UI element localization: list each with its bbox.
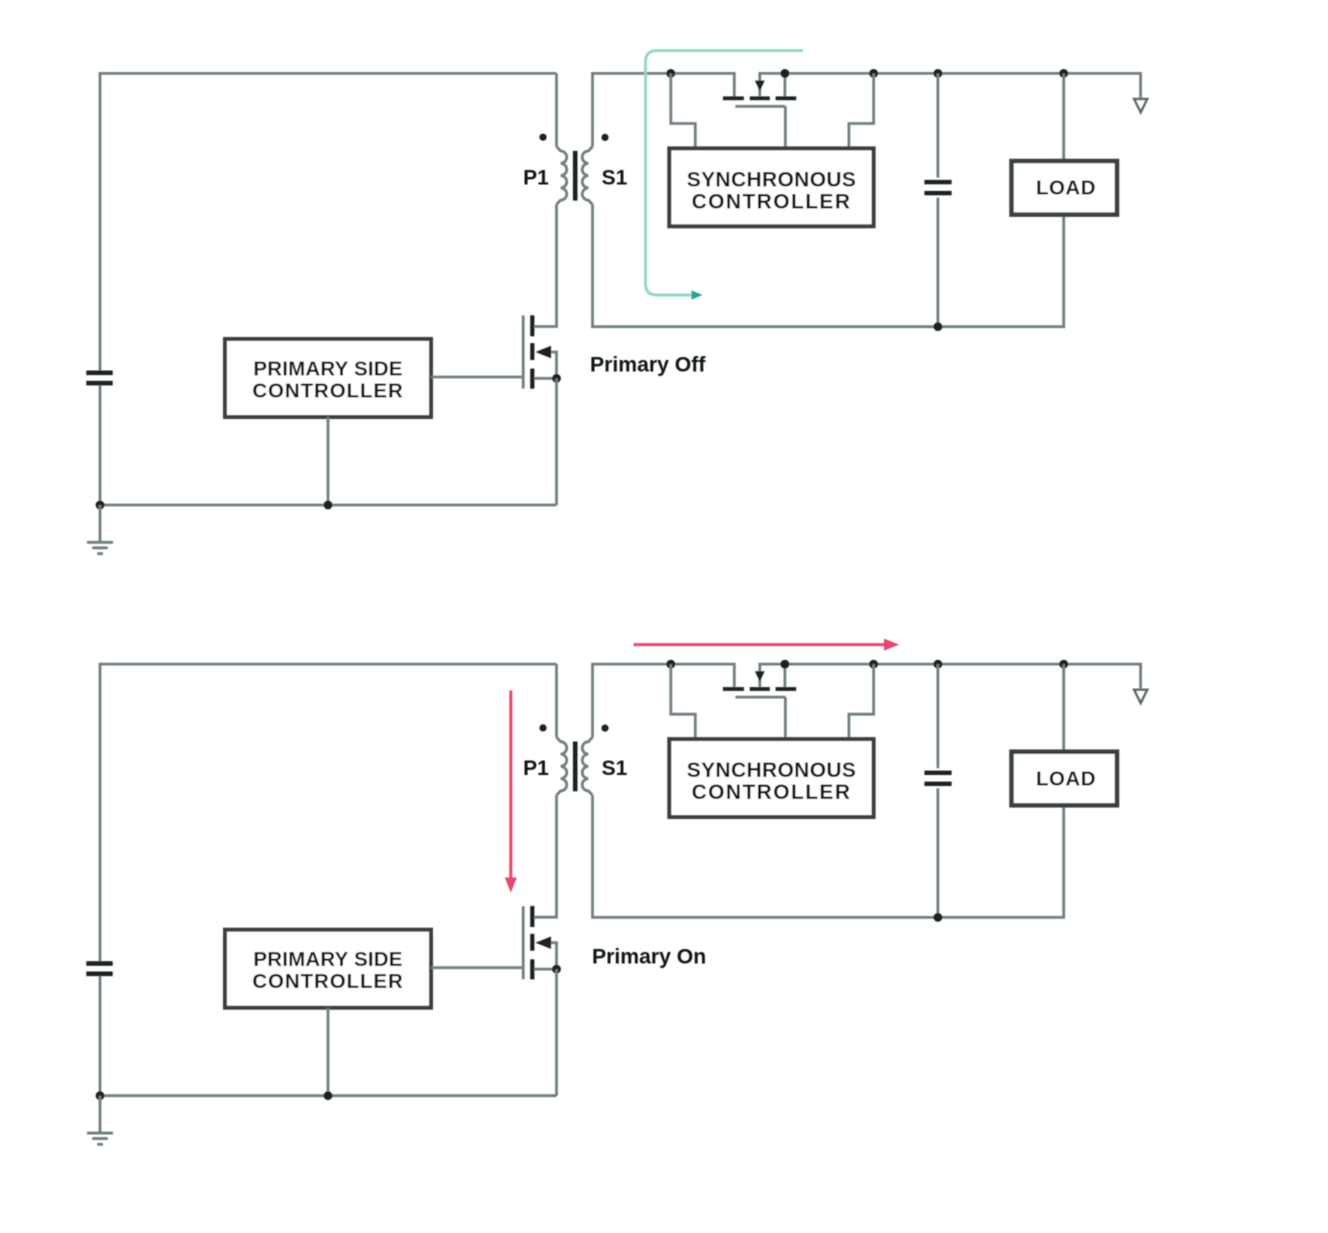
svg-text:PRIMARY SIDE: PRIMARY SIDE [253, 948, 402, 971]
wire Q source to ground rail (top, primary off) [555, 378, 558, 505]
ground symbol primary (bottom, primary on) [99, 1096, 102, 1133]
svg-text:S1: S1 [602, 757, 628, 780]
output return open arrow (top, primary off) [1134, 99, 1147, 112]
node junction output cap bottom (bottom, primary on) [934, 913, 943, 922]
teal secondary current loop arrow (primary off) [646, 51, 804, 295]
wire load top lead (top, primary off) [1062, 73, 1065, 162]
wire controller sense pin right (top, primary off) [849, 73, 874, 148]
wire controller sense pin right (bottom, primary on) [849, 664, 874, 739]
wire primary top lead (top, primary off) [555, 73, 558, 146]
transformer polarity dot secondary (top, primary off) [601, 134, 608, 141]
node junction input cap / ground rail (bottom, primary on) [96, 1091, 105, 1100]
wire controller ground pin (bottom, primary on) [327, 1008, 330, 1096]
wire Q source to ground rail (bottom, primary on) [555, 969, 558, 1096]
node junction output cap top (bottom, primary on) [934, 660, 943, 669]
transformer T1 core (top, primary off) [573, 151, 578, 201]
transformer polarity dot primary (top, primary off) [539, 134, 546, 141]
svg-text:SYNCHRONOUS: SYNCHRONOUS [687, 759, 857, 782]
transistor Q-sync rectifier FET (bottom, primary on) [723, 687, 744, 691]
wire primary ground rail (bottom, primary on) [100, 1094, 557, 1097]
node junction load top (top, primary off) [1059, 69, 1068, 78]
node junction sync-fet source (bottom, primary on) [781, 660, 790, 669]
wire gate drive to Q (top, primary off) [431, 376, 522, 379]
wire sync-fet gate to controller (top, primary off) [784, 106, 787, 148]
transistor Q primary MOSFET (top, primary off) [522, 316, 525, 389]
wire secondary top lead / top rail left segment / sync-fet drain stub (bottom, primary on) [593, 664, 735, 737]
transformer polarity dot primary (bottom, primary on) [539, 724, 546, 731]
wire primary ground rail (top, primary off) [100, 504, 557, 507]
svg-text:Primary On: Primary On [592, 945, 706, 968]
ground symbol primary (top, primary off) [99, 505, 102, 542]
node junction Q source (bottom, primary on) [552, 965, 561, 974]
svg-text:SYNCHRONOUS: SYNCHRONOUS [687, 168, 857, 191]
capacitor C-in input bulk cap (bottom, primary on) [86, 961, 112, 966]
wire secondary top lead / top rail left segment / sync-fet drain stub (top, primary off) [593, 73, 735, 146]
capacitor C-in input bulk cap (top, primary off) [86, 371, 112, 376]
node junction sync-fet source (top, primary off) [781, 69, 790, 78]
node junction output cap bottom (top, primary off) [934, 322, 943, 331]
node junction controller right branch (top, primary off) [869, 69, 878, 78]
transformer T1 core (bottom, primary on) [573, 742, 578, 792]
svg-text:LOAD: LOAD [1036, 177, 1096, 200]
wire primary winding to Q drain (top, primary off) [534, 205, 557, 327]
svg-text:CONTROLLER: CONTROLLER [692, 191, 852, 214]
output return open arrow (bottom, primary on) [1134, 690, 1147, 703]
wire left input vertical lower (bottom, primary on) [99, 976, 102, 1096]
capacitor C-out output cap (bottom, primary on) [937, 664, 940, 768]
wire controller sense pin left (bottom, primary on) [671, 664, 696, 739]
capacitor C-out output cap (top, primary off) [937, 73, 940, 177]
svg-text:P1: P1 [523, 757, 549, 780]
wire sync-fet source stub (top, primary off) [784, 73, 787, 96]
node junction sync-fet drain branch (top, primary off) [666, 69, 675, 78]
wire top input rail / left input vertical (bottom, primary on) [100, 664, 557, 961]
node junction output cap top (top, primary off) [934, 69, 943, 78]
wire gate drive to Q (bottom, primary on) [431, 966, 522, 969]
wire primary winding to Q drain (bottom, primary on) [534, 795, 557, 917]
transistor Q primary MOSFET (bottom, primary on) [522, 906, 525, 979]
node junction Q source (top, primary off) [552, 374, 561, 383]
wire secondary bottom lead / bottom rail / load bottom lead (bottom, primary on) [593, 795, 1064, 917]
transistor Q-sync rectifier FET (top, primary off) [723, 96, 744, 100]
load box (bottom, primary on) [1012, 752, 1118, 806]
transformer polarity dot secondary (bottom, primary on) [601, 725, 608, 732]
red primary current arrow (primary on) [509, 691, 512, 879]
transformer T1 primary winding P1 (bottom, primary on) [557, 737, 567, 795]
node junction load top (bottom, primary on) [1059, 660, 1068, 669]
wire top input rail / left input vertical (top, primary off) [100, 73, 557, 370]
svg-text:CONTROLLER: CONTROLLER [252, 970, 403, 993]
synchronous controller U2 box (bottom, primary on) [669, 739, 873, 817]
load box (top, primary off) [1012, 161, 1118, 215]
node junction controller right branch (bottom, primary on) [869, 660, 878, 669]
wire controller ground pin (top, primary off) [327, 417, 330, 505]
primary side controller U1 box (bottom, primary on) [225, 930, 431, 1008]
node junction controller ground (top, primary off) [324, 501, 333, 510]
wire left input vertical lower (top, primary off) [99, 385, 102, 505]
svg-text:P1: P1 [523, 167, 549, 190]
wire sync-fet gate to controller (bottom, primary on) [784, 697, 787, 739]
svg-text:CONTROLLER: CONTROLLER [252, 380, 403, 403]
node junction sync-fet drain branch (bottom, primary on) [666, 660, 675, 669]
svg-text:CONTROLLER: CONTROLLER [692, 781, 852, 804]
wire primary top lead (bottom, primary on) [555, 664, 558, 737]
transformer T1 secondary winding S1 (bottom, primary on) [582, 737, 592, 795]
svg-text:LOAD: LOAD [1036, 767, 1096, 790]
svg-text:PRIMARY SIDE: PRIMARY SIDE [253, 357, 402, 380]
wire sync-fet source stub (bottom, primary on) [784, 664, 787, 687]
node junction input cap / ground rail (top, primary off) [96, 501, 105, 510]
node junction controller ground (bottom, primary on) [324, 1091, 333, 1100]
wire load top lead (bottom, primary on) [1062, 664, 1065, 753]
wire controller sense pin left (top, primary off) [671, 73, 696, 148]
transformer T1 primary winding P1 (top, primary off) [557, 147, 567, 205]
synchronous controller U2 box (top, primary off) [669, 148, 873, 226]
svg-text:S1: S1 [602, 167, 628, 190]
transformer T1 secondary winding S1 (top, primary off) [582, 147, 592, 205]
wire secondary bottom lead / bottom rail / load bottom lead (top, primary off) [593, 205, 1064, 327]
primary side controller U1 box (top, primary off) [225, 339, 431, 417]
svg-text:Primary Off: Primary Off [590, 354, 706, 377]
red output current arrow (primary on) [634, 643, 885, 646]
